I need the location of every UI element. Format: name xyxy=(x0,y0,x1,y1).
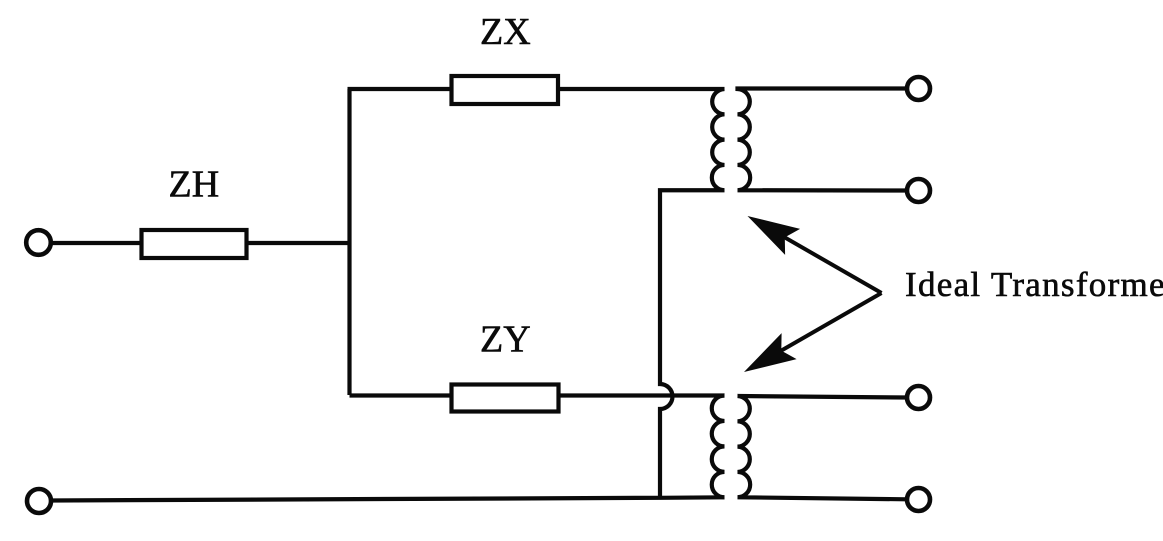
svg-text:ZY: ZY xyxy=(480,319,531,361)
svg-text:ZH: ZH xyxy=(169,164,220,206)
svg-text:ZX: ZX xyxy=(480,11,531,53)
svg-text:Ideal Transformer: Ideal Transformer xyxy=(905,265,1163,304)
